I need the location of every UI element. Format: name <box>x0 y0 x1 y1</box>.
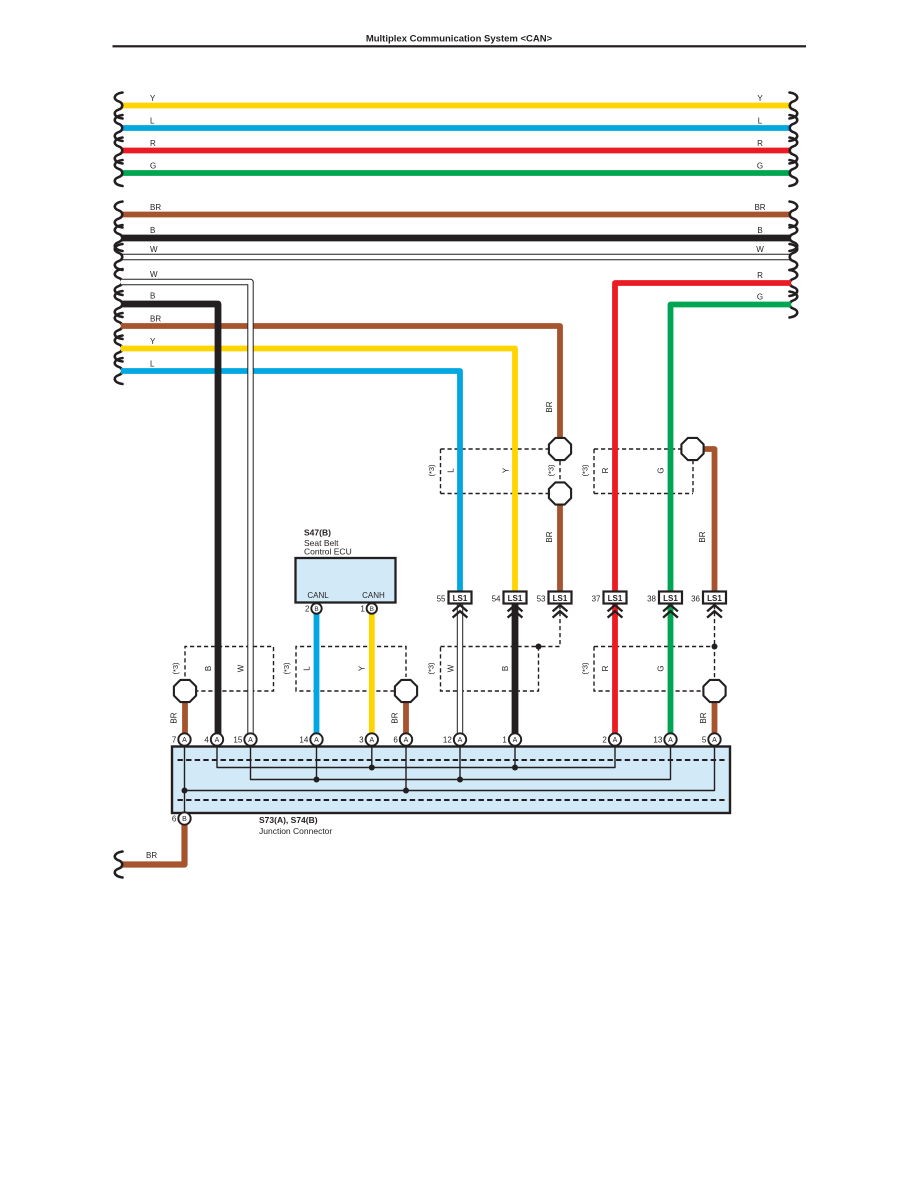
shield box lower-3 outline <box>441 647 539 692</box>
wire R main bus (section 1) <box>121 148 791 154</box>
junction dot pin6/shield <box>403 788 409 794</box>
stub pin 12 to CANL bus <box>459 741 461 780</box>
wire-break symbol right of R <box>790 138 798 164</box>
wire B row 2 (section 2) <box>121 235 791 242</box>
svg-text:B: B <box>150 292 155 301</box>
wire-break symbol left of G <box>115 160 123 186</box>
svg-text:BR: BR <box>170 712 179 723</box>
svg-text:R: R <box>601 467 610 473</box>
junction pin 3 (A) <box>366 733 378 745</box>
wire-break symbol right of Y <box>790 93 798 119</box>
wire-break symbol left of R <box>115 138 123 164</box>
svg-text:A: A <box>668 737 673 744</box>
svg-text:Y: Y <box>150 337 156 346</box>
svg-text:LS1: LS1 <box>608 594 623 603</box>
junction dot pin1/CANH <box>512 765 518 771</box>
junction dot pin7/shield <box>182 788 188 794</box>
wire B black below LS1-54 to junction pin 1 <box>512 604 519 735</box>
wire W row 3 (section 2) <box>121 254 791 260</box>
break right B row2 <box>790 225 798 251</box>
svg-text:S47(B): S47(B) <box>304 528 331 538</box>
S47 pin 1 (B) <box>367 603 377 613</box>
svg-text:R: R <box>757 139 763 148</box>
svg-text:Y: Y <box>358 665 367 671</box>
svg-text:Y: Y <box>502 467 511 473</box>
svg-text:G: G <box>150 162 156 171</box>
svg-text:12: 12 <box>443 736 452 745</box>
svg-text:6: 6 <box>393 736 398 745</box>
junction pin 12 (A) <box>454 733 466 745</box>
connector LS1 pin 36 <box>703 592 726 604</box>
svg-text:(*3): (*3) <box>427 464 436 477</box>
S47 pin 2 (B) <box>311 603 321 613</box>
junction pin 14 (A) <box>310 733 322 745</box>
twist connector J6 (bottom, on BR at shield box upper-1) <box>549 482 571 504</box>
svg-text:G: G <box>757 162 763 171</box>
break left BR exit <box>115 852 123 878</box>
break left B row5 <box>115 291 123 317</box>
shield box lower-1 outline <box>185 647 274 692</box>
svg-text:7: 7 <box>172 736 177 745</box>
junction internal dashed rail bottom <box>178 799 725 801</box>
svg-text:Control ECU: Control ECU <box>304 547 352 557</box>
wire L main bus (section 1) <box>121 125 791 131</box>
connector LS1 pin 54 <box>504 592 527 604</box>
shield drain dashed below LS1-36 <box>714 605 716 645</box>
wire BR brown: from twist connector J7 down to LS1-36 <box>701 449 715 593</box>
wire BR stub to junction pin 5 <box>712 700 718 735</box>
shield dashed segment between connectors J5/J6 <box>559 461 561 482</box>
wire BR stub to junction pin 7 <box>182 700 188 735</box>
svg-text:B: B <box>501 666 510 671</box>
junction dot pin14/CANL <box>314 777 320 783</box>
svg-text:36: 36 <box>691 595 700 604</box>
svg-text:B: B <box>314 606 318 613</box>
break right G row5 <box>790 292 798 318</box>
svg-text:LS1: LS1 <box>453 594 468 603</box>
wire R red below LS1-37 to junction pin 2 <box>612 604 618 735</box>
svg-text:A: A <box>712 737 717 744</box>
junction dot shield box lower-3 corner <box>536 644 542 650</box>
ECU S47(B) box <box>296 558 396 603</box>
junction pin 5 (A) <box>708 733 720 745</box>
internal bus CANL (pins 15-14-12-13) <box>251 741 671 780</box>
wire BR stub to junction pin 6 <box>403 700 409 735</box>
junction pin 7 (A) <box>178 733 190 745</box>
shield drain dashed below LS1-53 <box>539 605 561 647</box>
svg-text:Junction Connector: Junction Connector <box>259 826 332 836</box>
stub pin 14 to CANL bus <box>316 741 318 780</box>
twist connector J5 (top, on BR at shield box upper-1) <box>549 438 571 460</box>
svg-text:BR: BR <box>699 712 708 723</box>
svg-text:(*3): (*3) <box>581 662 590 675</box>
wire G green below LS1-38 to junction pin 13 <box>668 604 674 735</box>
svg-text:(*3): (*3) <box>547 464 556 477</box>
svg-text:G: G <box>657 467 666 473</box>
svg-text:14: 14 <box>299 736 308 745</box>
junction pin 13 (A) <box>664 733 676 745</box>
wire W white: row4 down to junction pin 15 <box>121 282 251 735</box>
svg-text:Y: Y <box>150 94 156 103</box>
svg-text:W: W <box>756 245 764 254</box>
svg-text:G: G <box>757 293 763 302</box>
wire BR row 1 (section 2) <box>121 212 791 218</box>
svg-text:BR: BR <box>754 203 765 212</box>
wire B black: row5 down to junction pin 4 <box>121 304 218 735</box>
svg-text:BR: BR <box>391 712 400 723</box>
junction pin 15 (A) <box>244 733 256 745</box>
svg-text:54: 54 <box>492 595 501 604</box>
svg-text:2: 2 <box>602 736 607 745</box>
junction internal dashed rail top <box>178 759 725 761</box>
internal bus shield (pins 7-6-5-6B) <box>185 741 715 791</box>
connector LS1 pin 38 <box>659 592 682 604</box>
svg-text:L: L <box>447 468 456 473</box>
svg-text:B: B <box>370 606 374 613</box>
svg-text:A: A <box>513 737 518 744</box>
svg-text:R: R <box>150 139 156 148</box>
twist connector J7 (shield box upper-2 corner) <box>681 438 703 460</box>
wire W white below LS1-55 to junction pin 12 <box>457 604 463 735</box>
wire BR from junction pin 6B exiting left <box>121 824 185 865</box>
wire L blue: row8 down to connector LS1-55 <box>121 371 460 593</box>
svg-text:BR: BR <box>146 851 157 860</box>
shield box lower-4 outline <box>594 647 715 680</box>
svg-text:Y: Y <box>757 94 763 103</box>
junction pin 1 (A) <box>509 733 521 745</box>
wire-break symbol right of L <box>790 115 798 141</box>
junction dot pin3/CANH <box>369 765 375 771</box>
svg-text:(*3): (*3) <box>171 662 180 675</box>
break left W row4 <box>115 269 123 295</box>
svg-text:(*3): (*3) <box>427 662 436 675</box>
svg-text:LS1: LS1 <box>707 594 722 603</box>
connector LS1 pin 55 <box>449 592 472 604</box>
break left BR row1 <box>115 202 123 228</box>
junction dot pin12/CANL <box>457 777 463 783</box>
svg-text:6: 6 <box>172 815 177 824</box>
svg-text:5: 5 <box>702 736 707 745</box>
svg-text:L: L <box>303 666 312 671</box>
wire Y yellow: row7 down to connector LS1-54 <box>121 349 515 594</box>
stub pin 3 to CANH bus <box>371 741 373 768</box>
stub pin 1 to CANH bus <box>514 741 516 768</box>
junction pin 2 (A) <box>609 733 621 745</box>
title rule <box>113 45 807 47</box>
wire-break symbol right of G <box>790 160 798 186</box>
svg-text:LS1: LS1 <box>508 594 523 603</box>
svg-text:B: B <box>150 226 155 235</box>
svg-text:R: R <box>601 665 610 671</box>
svg-text:3: 3 <box>359 736 364 745</box>
svg-text:LS1: LS1 <box>663 594 678 603</box>
svg-text:(*3): (*3) <box>581 464 590 477</box>
svg-text:4: 4 <box>204 736 209 745</box>
svg-text:1: 1 <box>502 736 507 745</box>
junction pin 6 (A) <box>400 733 412 745</box>
shield box upper-2 outline <box>594 448 681 450</box>
break left W row3 <box>115 244 123 270</box>
svg-text:A: A <box>182 737 187 744</box>
svg-text:S73(A), S74(B): S73(A), S74(B) <box>259 815 318 825</box>
svg-text:R: R <box>757 271 763 280</box>
stub pin 6 to shield bus <box>405 741 407 791</box>
break right W row3 <box>790 244 798 270</box>
junction pin 4 (A) <box>211 733 223 745</box>
svg-text:L: L <box>758 117 763 126</box>
svg-text:B: B <box>757 226 762 235</box>
svg-text:B: B <box>204 666 213 671</box>
svg-text:15: 15 <box>233 736 242 745</box>
svg-text:CANL: CANL <box>307 591 329 600</box>
svg-text:BR: BR <box>545 401 554 412</box>
break left B row2 <box>115 225 123 251</box>
svg-text:37: 37 <box>592 595 601 604</box>
svg-text:53: 53 <box>537 595 546 604</box>
twist connector J4 (shield box lower-4 corner) <box>703 680 725 702</box>
svg-text:1: 1 <box>360 605 365 614</box>
svg-text:13: 13 <box>653 736 662 745</box>
wire G green: row5 down to connector LS1-38 <box>671 305 792 594</box>
svg-text:L: L <box>150 117 155 126</box>
svg-text:BR: BR <box>545 531 554 542</box>
wire-break symbol left of L <box>115 115 123 141</box>
svg-text:(*3): (*3) <box>282 662 291 675</box>
svg-text:CANH: CANH <box>362 591 385 600</box>
svg-text:LS1: LS1 <box>553 594 568 603</box>
break right R row4 <box>790 270 798 296</box>
svg-text:L: L <box>150 360 155 369</box>
svg-text:2: 2 <box>305 605 310 614</box>
svg-text:55: 55 <box>437 595 446 604</box>
svg-text:A: A <box>404 737 409 744</box>
junction connector S73(A),S74(B) box <box>172 747 730 814</box>
shield box lower-2 outline <box>296 647 406 692</box>
shield box upper-1 outline <box>441 448 549 450</box>
svg-text:A: A <box>369 737 374 744</box>
twist connector J1 (shield box lower-1 corner) <box>174 680 196 702</box>
junction dot shield box lower-4 corner <box>712 644 718 650</box>
svg-text:W: W <box>447 664 456 672</box>
break right BR row1 <box>790 202 798 228</box>
break left L row8 <box>115 358 123 384</box>
svg-text:A: A <box>458 737 463 744</box>
break left Y row7 <box>115 336 123 362</box>
wire-break symbol left of Y <box>115 93 123 119</box>
connector LS1 pin 37 <box>604 592 627 604</box>
wire L blue from S47 pin 2 to junction pin 14 <box>314 611 320 735</box>
svg-text:A: A <box>613 737 618 744</box>
svg-text:A: A <box>314 737 319 744</box>
svg-text:W: W <box>150 245 158 254</box>
svg-text:A: A <box>248 737 253 744</box>
wire G main bus (section 1) <box>121 170 791 176</box>
stub pin 7 through to pin 6B <box>184 741 186 815</box>
wire R red: row4 down to connector LS1-37 <box>615 283 791 593</box>
svg-text:BR: BR <box>150 315 161 324</box>
twist connector J2 (shield box lower-2 corner) <box>395 680 417 702</box>
svg-text:B: B <box>182 816 187 823</box>
svg-text:BR: BR <box>698 531 707 542</box>
svg-text:Multiplex Communication System: Multiplex Communication System <CAN> <box>366 34 553 45</box>
break left BR row6 <box>115 313 123 339</box>
svg-text:W: W <box>150 270 158 279</box>
wire Y main bus (section 1) <box>121 103 791 109</box>
wire Y yellow from S47 pin 1 to junction pin 3 <box>369 611 375 735</box>
svg-text:W: W <box>237 664 246 672</box>
svg-text:BR: BR <box>150 203 161 212</box>
svg-text:38: 38 <box>647 595 656 604</box>
wire BR brown: row6 down to twist connector <box>121 326 560 440</box>
wire BR brown between twist connector and LS1-53 <box>557 503 563 593</box>
svg-text:A: A <box>215 737 220 744</box>
svg-text:G: G <box>657 665 666 671</box>
internal bus CANH (pins 4-3-1-2) <box>217 741 615 768</box>
connector LS1 pin 53 <box>549 592 572 604</box>
